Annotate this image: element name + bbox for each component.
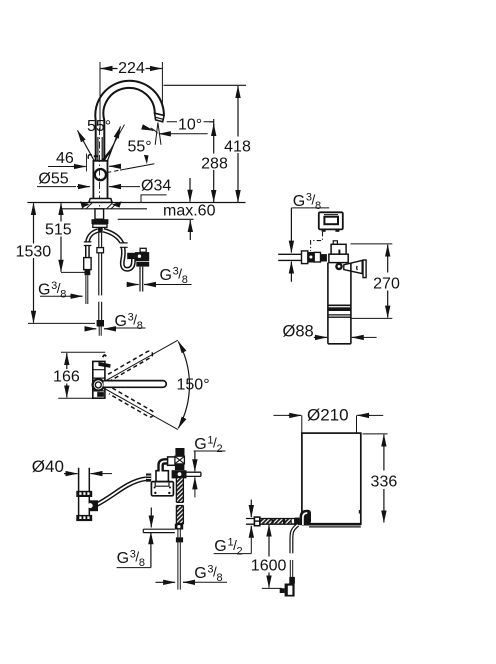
spout nozzle <box>155 113 165 122</box>
outlet tube <box>178 542 180 589</box>
max.60 lower arrow <box>189 220 191 240</box>
mounting plate <box>151 482 173 496</box>
dimension 336 <box>383 435 385 471</box>
escutcheon base <box>89 199 112 203</box>
tee right stub <box>187 472 201 476</box>
166 top tick <box>61 351 105 353</box>
outlet arrows <box>150 508 152 528</box>
dimension 515 <box>60 203 62 221</box>
max.60 upper arrow <box>189 178 191 202</box>
handle top view <box>98 362 110 368</box>
svg-text:1530: 1530 <box>16 243 52 260</box>
166 bottom tick <box>58 397 105 399</box>
pivot ring <box>93 379 104 390</box>
svg-text:336: 336 <box>371 474 398 491</box>
dimension 1530 <box>33 203 35 243</box>
150-degree legs <box>104 340 177 429</box>
valve column <box>175 448 184 456</box>
150-degree arc <box>178 342 189 429</box>
dashed swivel spout upper <box>108 350 154 380</box>
1530 bottom tick <box>28 322 95 324</box>
shank <box>95 209 104 219</box>
countertop bottom line <box>60 208 147 210</box>
hose to pump <box>97 479 146 505</box>
G38 bottom arrows <box>156 581 176 583</box>
center supply tube <box>98 233 102 296</box>
bottom blob <box>97 392 104 397</box>
clamp knob <box>335 263 343 271</box>
braided hose <box>176 478 183 524</box>
lever rod <box>98 137 102 161</box>
svg-text:55°: 55° <box>128 138 152 155</box>
inlet pipe <box>260 519 295 524</box>
lever tilted lines <box>105 125 125 161</box>
tank <box>302 433 361 524</box>
body top view <box>93 361 105 398</box>
center tube bottom fitting <box>97 320 104 327</box>
dimension D34 arrows <box>109 186 121 188</box>
tee side outlet <box>143 529 175 532</box>
270 top reference <box>351 243 393 245</box>
signal wire dashed <box>311 232 323 251</box>
filter head stub <box>333 241 337 245</box>
10-degree reference line <box>167 121 209 123</box>
dimension 418 <box>237 86 239 137</box>
wall bracket <box>344 260 362 273</box>
filter head cap <box>331 244 346 254</box>
FIG4 connections <box>64 448 227 590</box>
coupling lower <box>76 515 92 521</box>
FIG1 faucet front view <box>27 62 246 336</box>
svg-text:515: 515 <box>45 222 72 239</box>
spout inner arc <box>103 88 154 161</box>
plug body <box>285 584 295 597</box>
svg-text:Ø55: Ø55 <box>38 171 68 188</box>
filter cartridge <box>328 263 351 344</box>
svg-text:10°: 10° <box>178 117 202 134</box>
svg-text:224: 224 <box>118 60 145 77</box>
solid spout top view <box>104 381 167 388</box>
svg-text:Ø210: Ø210 <box>307 405 349 424</box>
coupling upper <box>76 491 92 497</box>
union nut <box>168 457 176 465</box>
dimension 224 <box>101 68 118 70</box>
svg-text:Ø34: Ø34 <box>141 177 171 194</box>
dimension D88 <box>314 336 327 338</box>
svg-text:150°: 150° <box>177 377 210 394</box>
svg-text:55°: 55° <box>87 118 111 135</box>
body width arrows <box>109 165 119 167</box>
55-degree right reference line <box>120 164 154 170</box>
pipe below fitting <box>140 267 143 292</box>
inlet pipe <box>278 254 301 260</box>
dimension 270 <box>387 245 389 273</box>
svg-text:166: 166 <box>53 368 80 385</box>
dimension D210 <box>273 414 290 416</box>
safety button <box>95 169 106 180</box>
336 top reference <box>363 433 388 435</box>
55-degree right arrow <box>144 155 149 164</box>
dimension 166 <box>66 353 68 369</box>
dashed swivel spout lower <box>109 388 155 418</box>
svg-text:418: 418 <box>224 139 251 156</box>
spout outer arc <box>95 81 164 161</box>
svg-text:max.60: max.60 <box>163 203 216 220</box>
plug strain relief <box>289 577 295 584</box>
mounting nut <box>92 219 109 224</box>
svg-text:270: 270 <box>373 276 400 293</box>
515 bottom tick <box>61 271 87 273</box>
hose tee on pipe <box>90 500 98 511</box>
D34 leader <box>141 195 167 203</box>
bottom tee <box>175 524 183 530</box>
nut below tee <box>178 530 180 538</box>
supply hose left <box>87 231 98 258</box>
centerline <box>99 128 101 232</box>
G38 right arrows <box>127 284 139 286</box>
dimension 288 <box>209 121 213 123</box>
FIG2 filter unit <box>278 208 392 344</box>
G38 label leader <box>291 207 329 209</box>
inlet valve <box>302 251 308 264</box>
pump box <box>156 471 168 482</box>
dimension D55 <box>37 186 76 188</box>
inlet pipe stub <box>246 519 255 525</box>
hose nut <box>146 474 151 482</box>
inlet left nut <box>254 517 259 526</box>
plug prong <box>280 588 285 593</box>
G38 left arrow <box>40 295 69 297</box>
G12 leader fig5 <box>214 553 252 555</box>
dimension 46 <box>48 166 72 168</box>
lever extent line <box>86 154 88 172</box>
FIG5 boiler <box>214 415 388 596</box>
G12 leader <box>194 450 226 452</box>
display box <box>319 212 343 229</box>
G38 bottom arrows <box>85 328 96 330</box>
270 bottom reference <box>352 317 393 319</box>
dimension 1600 <box>268 525 270 557</box>
svg-text:46: 46 <box>56 150 74 167</box>
supply hose right S <box>104 230 140 269</box>
elbow <box>161 461 169 471</box>
55-degree legs left <box>78 131 96 164</box>
base arrows <box>80 201 90 207</box>
countertop top line <box>27 202 245 204</box>
418 top reference line <box>164 84 247 86</box>
FIG3 top view <box>58 340 189 429</box>
power cord <box>291 525 297 554</box>
faucet body <box>93 161 107 199</box>
svg-text:288: 288 <box>201 155 228 172</box>
left hose fitting <box>84 258 91 270</box>
cartridge bands <box>328 304 351 306</box>
deck hatching <box>82 203 118 209</box>
inlet elbow <box>300 510 311 526</box>
svg-text:Ø40: Ø40 <box>32 457 64 476</box>
filter head body <box>329 254 348 262</box>
shank lower <box>93 224 107 227</box>
water stream lines <box>155 123 161 145</box>
hose break marks <box>120 243 128 247</box>
right angle fitting <box>140 248 146 252</box>
D40 arrows <box>64 473 78 475</box>
max.60 lower reference line <box>118 218 194 220</box>
inlet valve black fitting <box>295 518 300 525</box>
10-degree angle arrows <box>147 128 154 130</box>
svg-text:Ø88: Ø88 <box>283 323 314 341</box>
hose end nut <box>127 253 135 259</box>
svg-text:1600: 1600 <box>251 558 287 575</box>
drain pipe <box>79 468 90 521</box>
